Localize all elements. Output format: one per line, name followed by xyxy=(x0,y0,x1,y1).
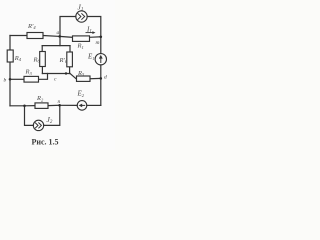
wire left drop to R6 xyxy=(41,46,43,52)
wire J2 loop right leg xyxy=(44,105,60,125)
wire node b row to R3 xyxy=(10,78,24,80)
wire E1 to node d xyxy=(100,65,102,79)
wire top rail of parallel pair xyxy=(42,45,70,47)
resistor R1 (top right horizontal) xyxy=(73,36,90,42)
current source J1 (circle with double arrow) xyxy=(76,11,87,22)
resistor R6 (left of parallel pair) xyxy=(40,52,46,67)
wire left column vertical xyxy=(9,36,11,51)
resistor R'6 (right of parallel pair) xyxy=(67,52,73,67)
node b xyxy=(9,78,12,81)
svg-text:b: b xyxy=(4,78,7,84)
wire right drop to R'6 xyxy=(69,46,71,52)
wire node d to bottom-right corner xyxy=(100,78,102,105)
emf source E1 (circle with up arrow) xyxy=(95,54,106,65)
current arrow I1 xyxy=(86,31,96,34)
resistor R5 (middle right horizontal) xyxy=(77,76,91,81)
wire J2 junction to R2 xyxy=(25,105,36,107)
wire R1 to node m xyxy=(90,36,101,39)
svg-text:a: a xyxy=(57,30,60,36)
wire R3 to step up at c xyxy=(39,74,48,80)
node c junction dot xyxy=(65,72,67,74)
resistor R'4 (top horizontal) xyxy=(27,33,43,39)
wire R6 bottom stub xyxy=(41,67,43,74)
wire R2 to node n xyxy=(48,104,60,106)
junction J2-R2 left xyxy=(23,105,26,108)
wire J1 loop xyxy=(60,17,76,37)
svg-text:d: d xyxy=(104,75,107,81)
wire R5 to node d xyxy=(90,77,101,79)
wire R'6 bottom stub xyxy=(69,67,71,74)
node n xyxy=(58,104,61,107)
resistor R4 (left vertical) xyxy=(7,50,13,62)
svg-text:m: m xyxy=(96,40,100,46)
emf source E2 (circle with left arrow) xyxy=(77,101,87,111)
node d xyxy=(100,77,103,80)
wire right rail m to E1 xyxy=(100,37,102,54)
node a xyxy=(58,35,61,38)
current source J2 (circle with double arrow) xyxy=(33,120,43,130)
wire bottom rail of parallel pair (node c) xyxy=(42,73,70,75)
wire node a to R1 xyxy=(60,35,73,38)
wire node n to E2 xyxy=(60,104,78,106)
node m xyxy=(100,36,103,39)
wire E2 to bottom-right corner xyxy=(87,104,101,106)
wire bottom rail left corner to J2 junction xyxy=(10,105,25,107)
svg-text:Рис. 1.5: Рис. 1.5 xyxy=(32,138,59,147)
resistor R3 (middle left horizontal) xyxy=(24,76,39,82)
wire c step down to R5 xyxy=(70,74,77,79)
wire J2 loop left leg xyxy=(25,106,34,126)
wire a-stub to top rail xyxy=(59,36,61,45)
wire top-left row b-corner to node a xyxy=(10,35,27,37)
resistor R2 (bottom horizontal) xyxy=(35,103,48,109)
svg-text:n: n xyxy=(58,99,61,105)
